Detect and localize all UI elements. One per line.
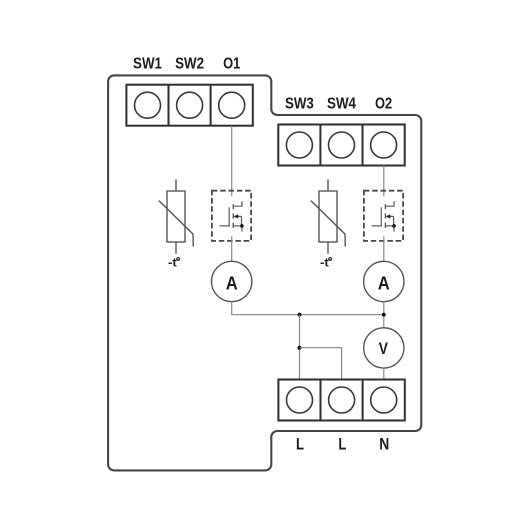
ammeter A1 — [212, 261, 252, 301]
wire O1 to mosfet Q1 — [231, 126, 233, 197]
mosfet Q1 dashed box — [212, 191, 251, 241]
wire branch to L2 — [300, 348, 342, 380]
svg-text:O2: O2 — [375, 96, 392, 113]
junction dot bus-right — [382, 313, 386, 317]
terminal circle L2 — [329, 387, 355, 413]
wire mosfet Q2 to ammeter A2 — [383, 236, 385, 261]
svg-text:-t: -t — [168, 255, 177, 269]
wire mosfet Q1 to ammeter A1 — [231, 236, 233, 261]
wire A2 down through bus to voltmeter — [383, 302, 385, 328]
voltmeter V1 — [364, 328, 404, 368]
wire V to N terminal — [383, 368, 385, 379]
terminal block SW1/SW2/O1 — [126, 85, 252, 126]
thermistor RT1 — [159, 179, 193, 254]
svg-text:-t: -t — [320, 255, 329, 269]
junction dot bus-left — [298, 313, 302, 317]
svg-text:A: A — [226, 272, 238, 293]
ammeter A2 — [364, 261, 404, 301]
device outline — [108, 75, 421, 470]
svg-text:L: L — [338, 435, 346, 454]
thermistor RT2 — [311, 179, 345, 254]
svg-text:N: N — [379, 435, 389, 454]
terminal circle SW3 — [286, 132, 312, 158]
terminal block L/L/N — [278, 380, 404, 421]
mosfet Q1 symbol — [220, 201, 244, 232]
wire A1 to bus — [232, 302, 384, 315]
terminal circle L1 — [287, 387, 313, 413]
wire branch down to L1 — [299, 315, 301, 380]
svg-text:SW3: SW3 — [285, 96, 314, 113]
svg-text:L: L — [296, 435, 304, 454]
junction dot branch — [298, 346, 302, 350]
terminal circle SW4 — [329, 132, 355, 158]
svg-text:SW1: SW1 — [133, 56, 162, 73]
terminal circle N — [371, 387, 397, 413]
terminal circle SW1 — [135, 92, 161, 118]
svg-text:A: A — [378, 272, 390, 293]
svg-text:O1: O1 — [223, 56, 240, 73]
terminal circle O2 — [371, 132, 397, 158]
wire O2 to mosfet Q2 — [383, 166, 385, 197]
terminal circle SW2 — [177, 92, 203, 118]
svg-text:V: V — [379, 339, 389, 358]
svg-text:SW4: SW4 — [327, 96, 356, 113]
terminal circle O1 — [219, 92, 245, 118]
terminal block SW3/SW4/O2 — [278, 125, 404, 166]
mosfet Q2 dashed box — [364, 191, 403, 241]
mosfet Q2 symbol — [372, 201, 396, 232]
svg-text:SW2: SW2 — [175, 56, 204, 73]
